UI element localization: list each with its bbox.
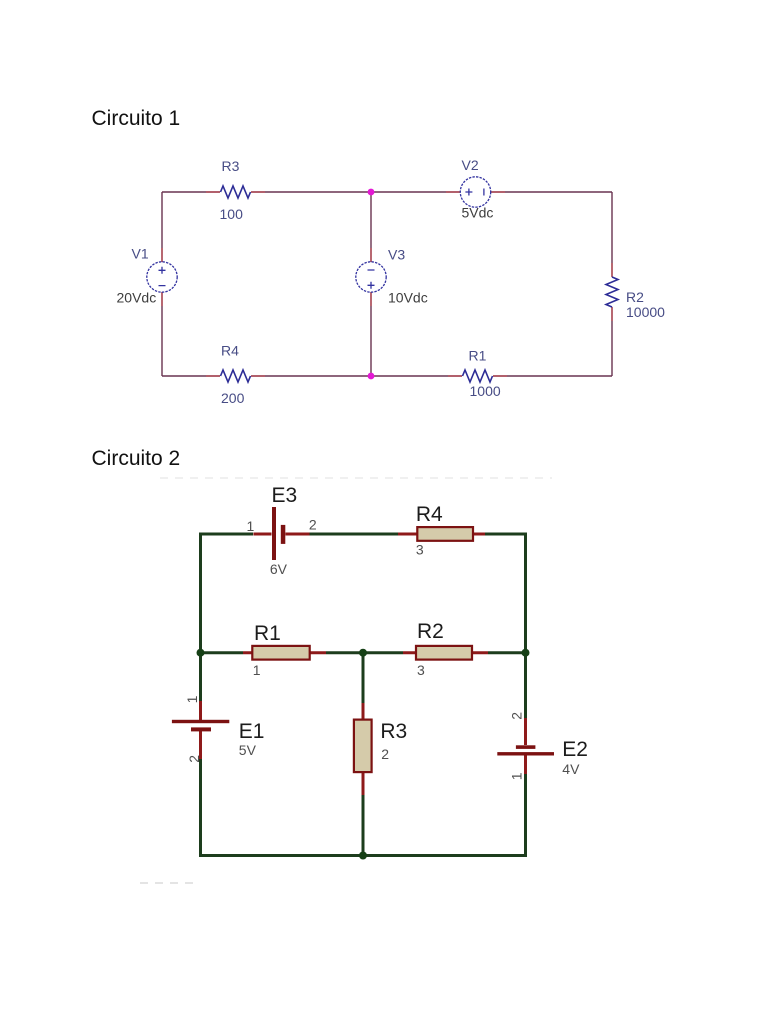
svg-text:200: 200 <box>221 390 245 406</box>
svg-text:Circuito 1: Circuito 1 <box>92 107 181 130</box>
svg-text:5Vdc: 5Vdc <box>462 205 494 221</box>
wire c2 center vertical lower <box>362 795 365 856</box>
wire middle vertical lower <box>370 292 372 376</box>
svg-text:1: 1 <box>253 662 261 678</box>
battery E1 <box>172 695 265 762</box>
voltage source V1 <box>147 262 177 292</box>
wire c2 top middle <box>310 533 399 536</box>
svg-text:10000: 10000 <box>626 304 665 320</box>
svg-text:1000: 1000 <box>470 383 501 399</box>
wire c2 right upper <box>524 534 527 718</box>
wire c2 left lower <box>199 759 202 857</box>
faint selection dash top <box>160 477 552 479</box>
wire c2 left upper <box>199 534 202 701</box>
resistor R4 <box>221 370 251 382</box>
resistor R2 (vertical) <box>606 277 618 307</box>
svg-text:2: 2 <box>509 712 525 720</box>
resistor R2 (c2) <box>403 620 488 678</box>
svg-text:1: 1 <box>184 695 200 703</box>
svg-text:4V: 4V <box>562 761 580 777</box>
junction node c2 bottom <box>359 852 367 860</box>
svg-text:R3: R3 <box>222 158 240 174</box>
wire bottom right segment <box>493 375 612 377</box>
junction node c2 right middle <box>522 649 530 657</box>
junction node top middle <box>368 189 375 196</box>
wire middle vertical upper <box>370 192 372 262</box>
wire c2 middle row <box>199 651 527 654</box>
svg-text:E2: E2 <box>562 738 588 761</box>
faint selection dash bottom-left <box>140 882 198 884</box>
svg-text:6V: 6V <box>270 561 288 577</box>
battery E3 <box>247 484 317 577</box>
wire right vertical upper <box>611 192 613 277</box>
svg-text:1: 1 <box>509 772 525 780</box>
svg-text:R1: R1 <box>469 348 487 364</box>
svg-text:R4: R4 <box>416 503 443 526</box>
voltage source V3 <box>356 262 386 292</box>
svg-text:2: 2 <box>309 517 317 533</box>
svg-text:2: 2 <box>186 755 202 763</box>
wire top-left segment <box>162 191 220 193</box>
svg-text:V3: V3 <box>388 247 405 263</box>
svg-text:Circuito 2: Circuito 2 <box>92 447 181 470</box>
wire c2 bottom <box>199 854 527 857</box>
wire c2 center vertical <box>362 653 365 703</box>
red lead stubs near components <box>162 192 612 376</box>
wire c2 top left <box>201 534 254 536</box>
wire right vertical lower <box>611 307 613 376</box>
svg-text:R1: R1 <box>254 622 281 645</box>
wire bottom middle segment <box>251 375 462 377</box>
svg-text:E3: E3 <box>272 484 298 507</box>
svg-text:1: 1 <box>247 518 255 534</box>
voltage source V2 <box>460 177 490 207</box>
wire left vertical lower <box>161 292 163 376</box>
svg-text:V2: V2 <box>462 157 479 173</box>
junction node c2 center middle <box>359 649 367 657</box>
svg-text:R3: R3 <box>380 720 407 743</box>
svg-text:3: 3 <box>416 542 424 558</box>
svg-text:E1: E1 <box>239 720 265 743</box>
resistor R1 (c2) <box>243 622 326 678</box>
resistor R3 <box>221 186 251 198</box>
junction node c2 left middle <box>197 649 205 657</box>
battery E2 <box>497 712 588 781</box>
svg-text:V1: V1 <box>132 246 149 262</box>
svg-text:20Vdc: 20Vdc <box>117 290 157 306</box>
wire bottom left segment <box>162 375 220 377</box>
wire c2 top right <box>485 534 526 545</box>
svg-text:5V: 5V <box>239 742 257 758</box>
svg-text:100: 100 <box>220 206 244 222</box>
resistor R4 (c2) <box>398 503 485 558</box>
junction node bottom middle <box>368 373 375 380</box>
svg-text:R2: R2 <box>626 289 644 305</box>
resistor R1 <box>463 370 493 382</box>
svg-text:R2: R2 <box>417 620 444 643</box>
wire c2 right lower <box>524 774 527 857</box>
svg-text:2: 2 <box>381 746 389 762</box>
svg-text:3: 3 <box>417 662 425 678</box>
wire left vertical upper <box>161 192 163 262</box>
wire top middle segment <box>251 191 460 193</box>
svg-text:10Vdc: 10Vdc <box>388 290 428 306</box>
wire top right segment <box>491 191 612 193</box>
svg-text:R4: R4 <box>221 343 239 359</box>
resistor R3 (c2, vertical) <box>354 703 407 795</box>
